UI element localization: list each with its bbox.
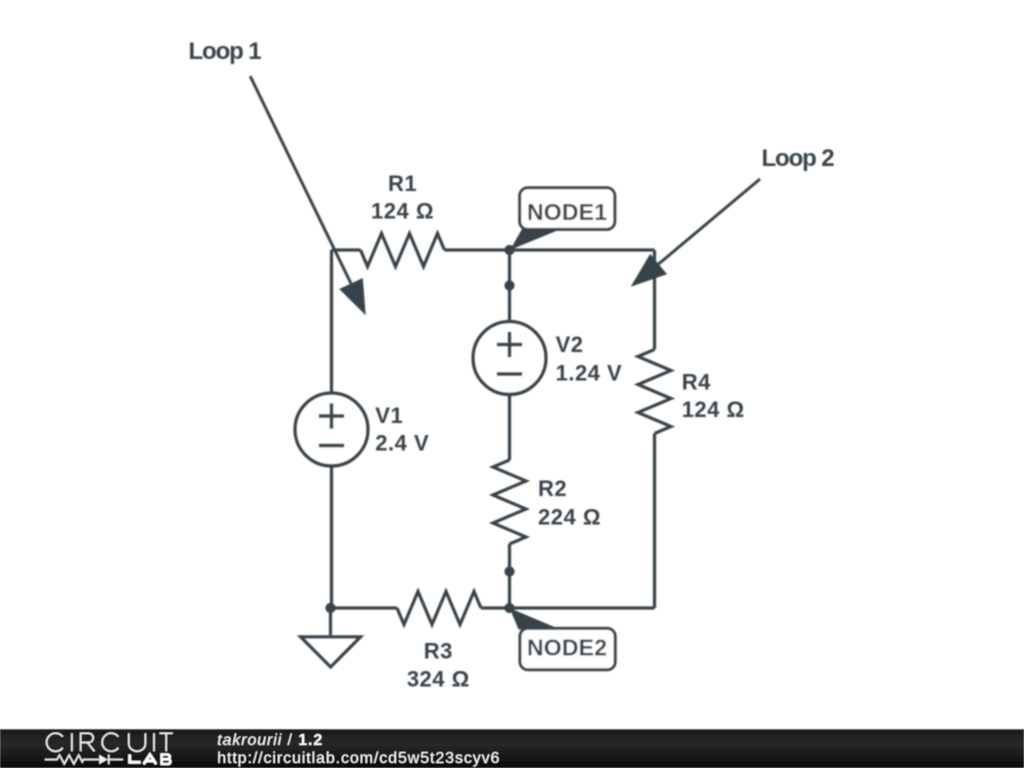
- resistor R2: [493, 460, 526, 544]
- wire middle V2 to R2: [508, 395, 511, 461]
- wire right branch lower: [653, 434, 656, 609]
- node dot NODE2 junction: [504, 603, 514, 613]
- loop 2 arrow: [631, 179, 760, 287]
- svg-text:V1: V1: [375, 403, 403, 428]
- svg-text:324 Ω: 324 Ω: [407, 667, 470, 692]
- svg-text:http://circuitlab.com/cd5w5t23: http://circuitlab.com/cd5w5t23scyv6: [217, 750, 500, 767]
- wire middle lower: [508, 544, 511, 608]
- resistor R3: [397, 592, 481, 625]
- node dot V2 top terminal: [504, 280, 514, 290]
- svg-text:224 Ω: 224 Ω: [538, 504, 601, 529]
- resistor R4: [638, 350, 671, 434]
- wire top rail left lead: [332, 248, 361, 251]
- svg-text:takrourii / 1.2: takrourii / 1.2: [217, 732, 323, 749]
- svg-text:R3: R3: [424, 639, 453, 664]
- loop 1 arrow: [250, 76, 366, 315]
- node dot R2 bottom terminal: [504, 566, 514, 576]
- ground: [329, 608, 332, 635]
- wire left branch lower: [330, 466, 333, 608]
- svg-text:NODE1: NODE1: [527, 199, 607, 225]
- svg-text:V2: V2: [556, 332, 584, 357]
- svg-text:R4: R4: [682, 370, 711, 395]
- wire middle upper: [508, 250, 511, 322]
- voltage source V1: [295, 393, 368, 466]
- svg-text:R2: R2: [538, 476, 567, 501]
- wire top rail right: [445, 248, 655, 251]
- svg-text:124 Ω: 124 Ω: [682, 397, 745, 422]
- wire bottom rail right: [481, 606, 655, 609]
- footer logo resistor-diode: [45, 755, 123, 765]
- svg-text:Loop 1: Loop 1: [189, 38, 262, 65]
- svg-text:R1: R1: [388, 171, 417, 196]
- wire bottom rail left: [332, 606, 398, 609]
- footer logo CIRCUIT: [47, 733, 173, 751]
- voltage source V2: [473, 322, 546, 395]
- node dot NODE1 junction: [504, 245, 514, 255]
- footer bar: [0, 729, 1024, 768]
- wire right branch upper: [653, 250, 656, 350]
- svg-text:2.4 V: 2.4 V: [375, 431, 429, 456]
- footer logo LAB: [130, 754, 171, 764]
- node label NODE2: [510, 608, 616, 670]
- node dot ground junction: [325, 603, 335, 613]
- wire left branch upper: [330, 250, 333, 393]
- node label NODE1: [510, 188, 615, 250]
- svg-text:NODE2: NODE2: [527, 635, 607, 661]
- resistor R1: [361, 234, 445, 267]
- svg-text:Loop 2: Loop 2: [762, 145, 835, 172]
- svg-text:124 Ω: 124 Ω: [371, 199, 434, 224]
- svg-text:1.24 V: 1.24 V: [556, 360, 623, 385]
